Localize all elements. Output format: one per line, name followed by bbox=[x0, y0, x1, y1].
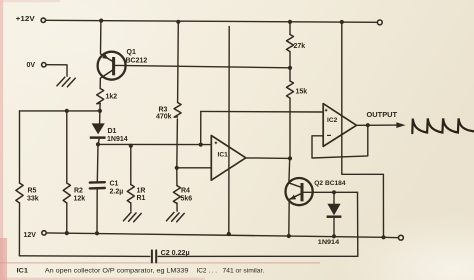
svg-text:Q2 BC184: Q2 BC184 bbox=[314, 180, 346, 187]
svg-text:33k: 33k bbox=[27, 196, 39, 203]
svg-text:1N914: 1N914 bbox=[318, 239, 340, 246]
svg-text:OUTPUT: OUTPUT bbox=[367, 112, 398, 119]
svg-text:R1: R1 bbox=[137, 195, 146, 202]
svg-text:IC1: IC1 bbox=[218, 152, 229, 159]
svg-text:470k: 470k bbox=[156, 114, 172, 121]
svg-text:D1: D1 bbox=[108, 128, 117, 135]
svg-text:2.2µ: 2.2µ bbox=[110, 189, 124, 196]
svg-text:C2 0.22µ: C2 0.22µ bbox=[161, 250, 190, 257]
svg-text:IC1: IC1 bbox=[17, 268, 29, 275]
svg-text:12k: 12k bbox=[74, 196, 86, 203]
svg-text:IC2: IC2 bbox=[327, 117, 338, 124]
svg-text:+12V: +12V bbox=[16, 16, 35, 23]
svg-text:5k6: 5k6 bbox=[181, 196, 193, 203]
svg-text:12V: 12V bbox=[24, 232, 37, 239]
svg-text:R3: R3 bbox=[159, 107, 168, 114]
svg-text:1N914: 1N914 bbox=[107, 136, 128, 143]
svg-text:1R: 1R bbox=[137, 188, 146, 195]
svg-text:0V: 0V bbox=[27, 62, 36, 69]
svg-text:15k: 15k bbox=[296, 89, 308, 96]
svg-text:. . .: . . . bbox=[209, 268, 218, 275]
svg-text:741 or similar.: 741 or similar. bbox=[223, 268, 265, 275]
svg-text:R4: R4 bbox=[181, 188, 190, 195]
svg-text:An open collector O/P comparat: An open collector O/P comparator, eg LM3… bbox=[45, 268, 189, 275]
svg-text:R2: R2 bbox=[74, 188, 83, 195]
svg-text:BC212: BC212 bbox=[126, 58, 148, 65]
svg-text:IC2: IC2 bbox=[197, 268, 207, 275]
svg-text:C1: C1 bbox=[110, 181, 119, 188]
svg-text:1k2: 1k2 bbox=[106, 94, 118, 101]
svg-text:Q1: Q1 bbox=[127, 49, 136, 56]
svg-text:R5: R5 bbox=[28, 188, 37, 195]
svg-text:27k: 27k bbox=[294, 43, 306, 50]
